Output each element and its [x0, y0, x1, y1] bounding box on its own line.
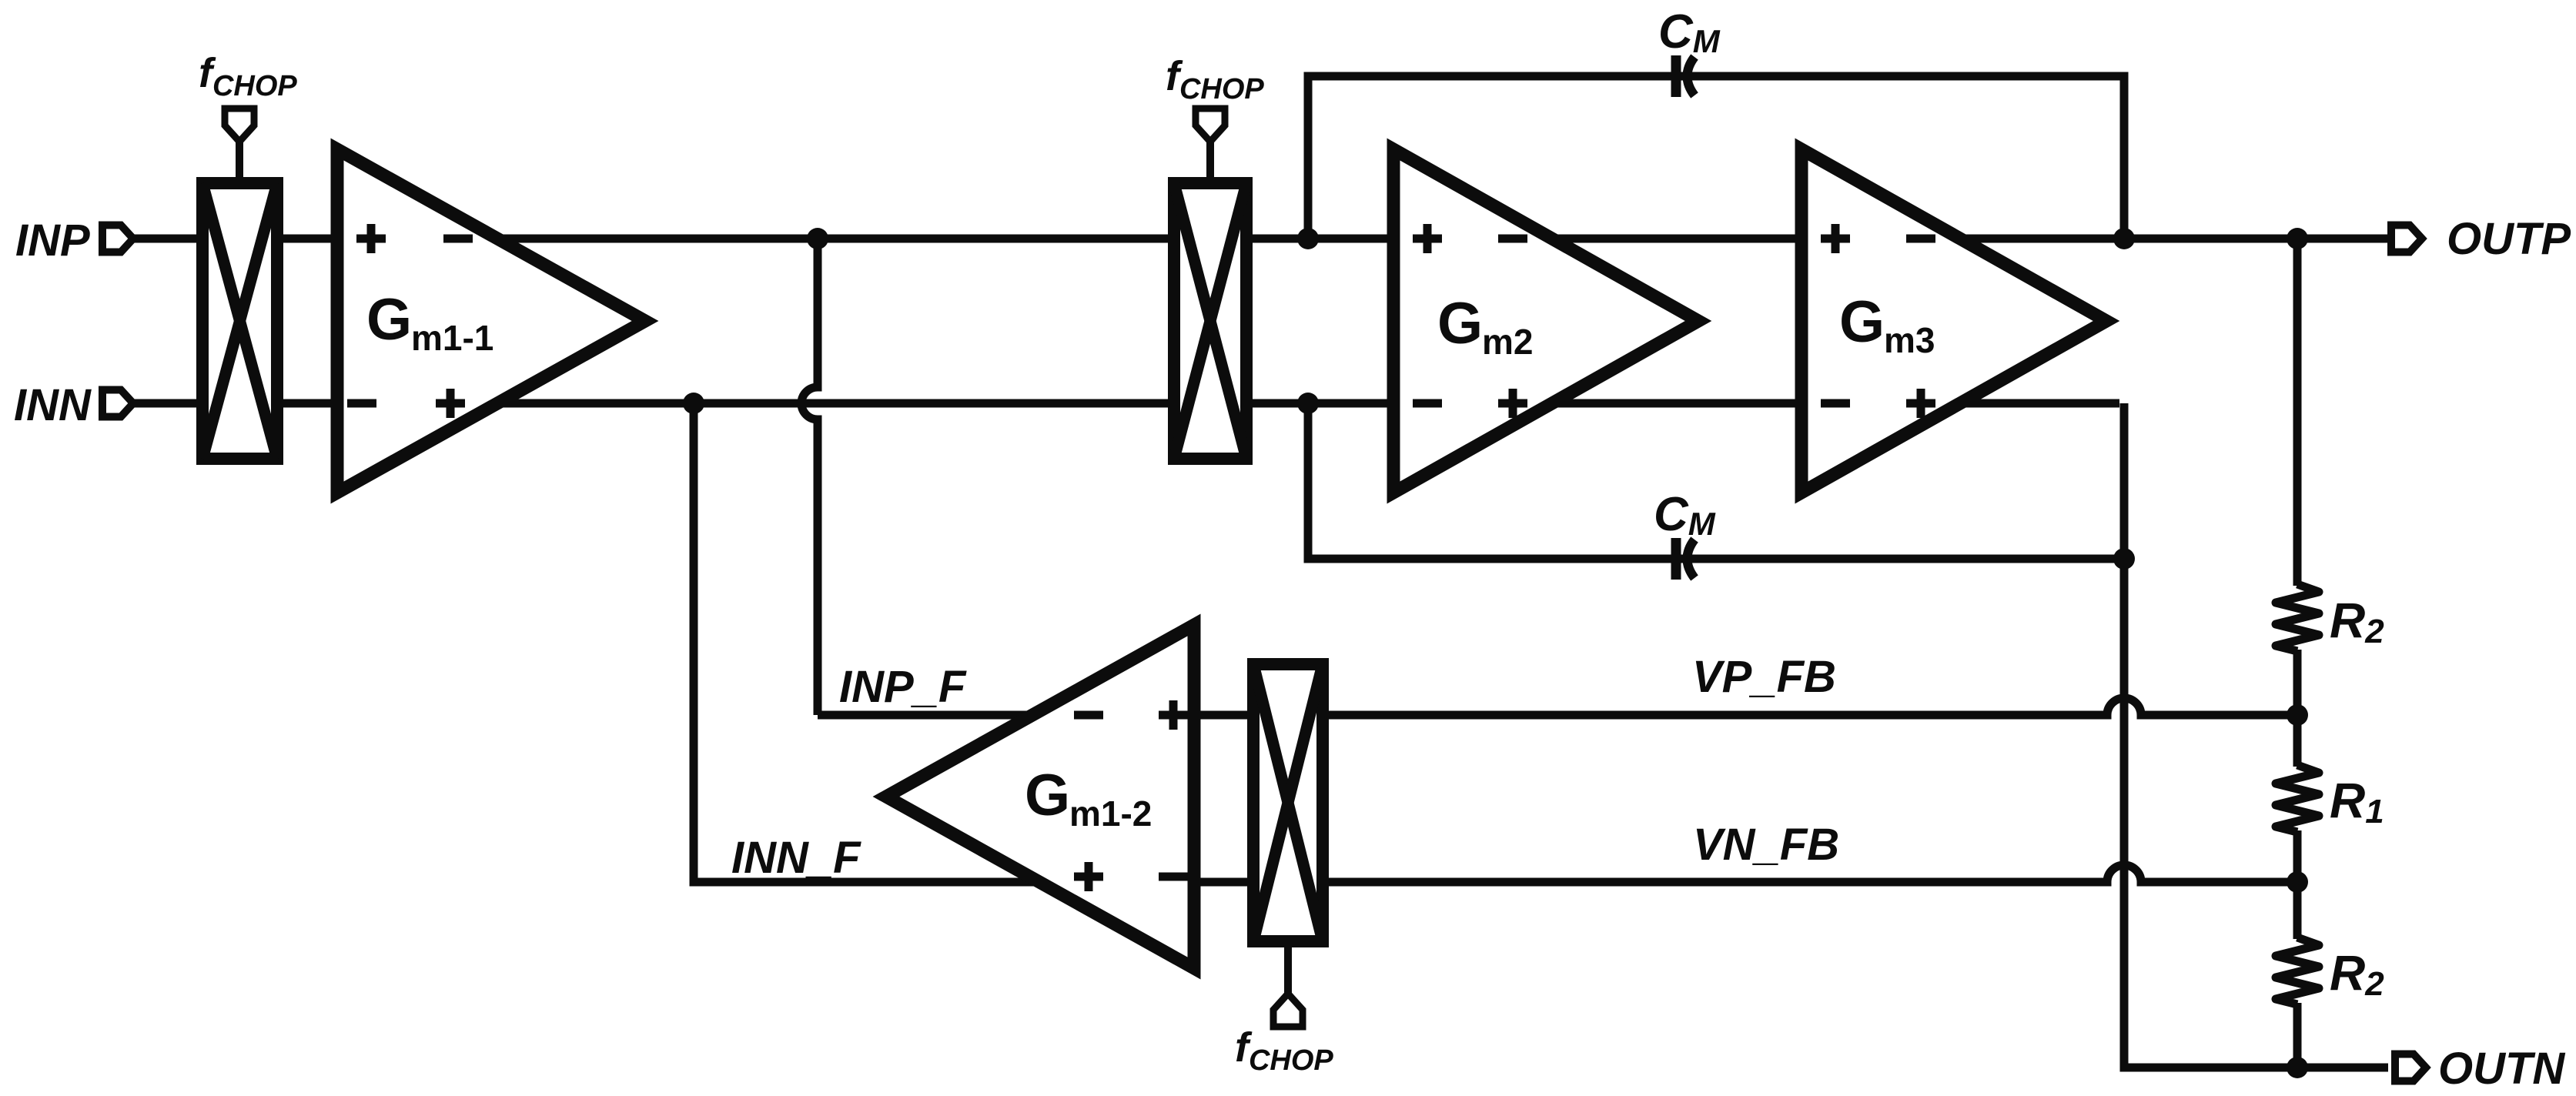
resistor R1	[2276, 765, 2319, 832]
capacitor CM bottom left plate	[1671, 538, 1681, 580]
node CM return junction on OUTP	[2113, 228, 2135, 249]
wire INN_F vertical	[694, 403, 1041, 882]
minus input Gm1-2	[1159, 873, 1188, 881]
minus output Gm1-1	[443, 235, 473, 243]
clock pin pentagon CH2	[1196, 109, 1225, 142]
node VN_FB junction	[2287, 871, 2308, 893]
wire INP_F horizontal	[818, 711, 1035, 720]
svg-text:INP_F: INP_F	[839, 662, 967, 712]
wire R2 to R1	[2293, 650, 2302, 767]
minus input Gm2	[1413, 399, 1442, 408]
plus output Gm3	[1906, 389, 1935, 418]
wire CM bottom feedback loop	[1308, 403, 2119, 559]
svg-text:G: G	[366, 287, 412, 353]
wire CM top feedback loop	[1308, 76, 2124, 239]
wire Gm1-1 top output to chopper CH2	[497, 235, 1176, 243]
plus output Gm1-2	[1074, 862, 1103, 891]
node R2 top junction on OUTP	[2287, 228, 2308, 249]
capacitor CM top left plate	[1671, 55, 1681, 97]
wire VP_FB with hop	[1329, 698, 2293, 715]
svg-text:G: G	[1839, 289, 1885, 355]
node INP_F tap junction	[807, 228, 828, 249]
op-amp Gm1-1	[337, 149, 645, 493]
wire Gm1-2 upper to chopper CH3	[1188, 711, 1258, 720]
clock pin pentagon CH3	[1273, 994, 1303, 1027]
minus output Gm1-2	[1074, 711, 1103, 720]
svg-text:INN: INN	[14, 380, 92, 430]
plus output Gm1-1	[436, 389, 465, 418]
wire CH2 top output to Gm2	[1245, 235, 1398, 243]
chopper CH1	[202, 183, 277, 459]
svg-text:OUTN: OUTN	[2438, 1044, 2565, 1094]
resistor R2 bottom	[2276, 937, 2319, 1004]
svg-text:OUTP: OUTP	[2447, 214, 2571, 264]
node CM bottom return junction	[2113, 548, 2135, 570]
port INP	[102, 226, 133, 252]
svg-text:INN_F: INN_F	[731, 833, 861, 883]
svg-text:VP_FB: VP_FB	[1692, 652, 1836, 702]
node CM bottom junction	[1297, 393, 1319, 414]
minus output Gm2	[1498, 235, 1527, 243]
wire Gm2 bottom output to Gm3	[1551, 399, 1806, 408]
wire Gm2 top output to Gm3	[1551, 235, 1806, 243]
wire R2 bottom to OUTN	[2293, 1003, 2302, 1068]
chopper CH2	[1174, 183, 1246, 459]
wire INN to chopper CH1	[132, 399, 342, 408]
op-amp Gm1-2 feedback	[886, 625, 1194, 968]
wire INP to chopper CH1	[132, 235, 342, 243]
svg-text:VN_FB: VN_FB	[1693, 820, 1839, 870]
minus input Gm1-1	[347, 399, 376, 408]
port INN	[102, 390, 133, 417]
svg-text:m1-2: m1-2	[1069, 794, 1152, 834]
wire VN_FB with hop	[1329, 865, 2293, 882]
plus input Gm1-1	[356, 224, 386, 253]
node R2 bottom junction on OUTN	[2287, 1057, 2308, 1078]
plus input Gm3	[1821, 224, 1850, 253]
node CM top junction	[1297, 228, 1319, 249]
resistor R2 top	[2276, 584, 2319, 651]
capacitor CM top right plate	[1688, 57, 1695, 95]
wire INP_F vertical with hop over bottom wire	[801, 239, 818, 715]
node VP_FB junction	[2287, 704, 2308, 726]
svg-text:m2: m2	[1482, 322, 1533, 362]
plus input Gm2	[1413, 224, 1442, 253]
plus input Gm1-2	[1159, 700, 1188, 730]
minus input Gm3	[1821, 399, 1850, 408]
op-amp Gm2	[1393, 149, 1698, 493]
port OUTP	[2391, 226, 2422, 252]
wire R1 to R2 bottom	[2293, 830, 2302, 939]
clock stem CH1	[236, 142, 243, 183]
op-amp Gm3	[1802, 149, 2106, 493]
svg-text:INP: INP	[15, 216, 90, 266]
node INN_F tap junction	[683, 393, 704, 414]
wire Gm3 bottom output	[1959, 399, 2119, 408]
svg-text:m3: m3	[1884, 320, 1935, 360]
wire OUTP	[1959, 235, 2388, 243]
wire resistor chain top	[2293, 239, 2302, 586]
capacitor CM bottom right plate	[1688, 540, 1695, 578]
svg-text:m1-1: m1-1	[411, 318, 493, 358]
clock stem CH2	[1206, 142, 1214, 183]
minus output Gm3	[1906, 235, 1935, 243]
svg-text:G: G	[1025, 763, 1070, 828]
wire CH2 bottom output to Gm2	[1245, 399, 1398, 408]
port OUTN	[2395, 1054, 2426, 1081]
svg-text:G: G	[1437, 291, 1483, 356]
chopper CH3	[1253, 664, 1323, 941]
clock stem CH3	[1284, 941, 1292, 994]
wire vertical output-N rail	[2124, 403, 2388, 1068]
clock pin pentagon CH1	[225, 109, 254, 142]
plus output Gm2	[1498, 389, 1527, 418]
wire Gm1-2 lower to chopper CH3	[1188, 878, 1258, 887]
wire Gm1-1 bottom output to chopper CH2	[497, 399, 1176, 408]
